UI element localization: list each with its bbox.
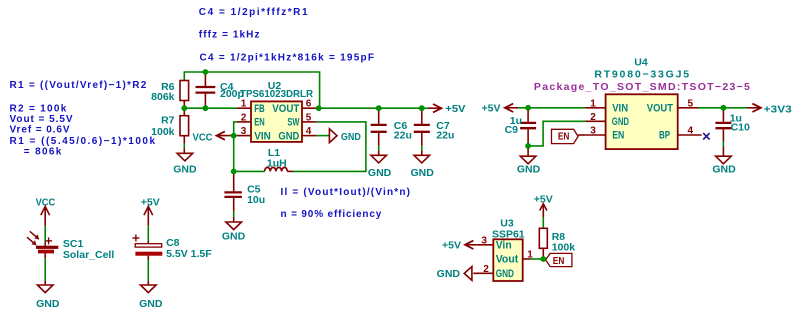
svg-text:806k: 806k [151,91,175,103]
svg-text:= 806k: = 806k [24,147,62,158]
svg-text:GND: GND [139,298,163,310]
solar cell SC1 [27,231,114,285]
pin 1 FB [237,99,251,110]
pin 2 GND [473,264,493,275]
note: inductor current formula text [281,187,411,220]
svg-text:GND: GND [437,268,461,280]
svg-text:+5V: +5V [445,103,465,115]
pin 1 VIN [585,98,605,109]
svg-text:TPS61023DRLR: TPS61023DRLR [240,88,313,100]
svg-text:GND: GND [496,268,514,280]
svg-text:GND: GND [36,298,60,310]
wire: SW to L1 [293,122,366,171]
svg-text:GND: GND [341,131,361,143]
svg-text:R7: R7 [161,114,175,126]
pin 3 EN [585,126,605,137]
ground at U2 pin 4 [317,129,362,143]
svg-text:R1 = ((5.45/0.6)−1)*100k: R1 = ((5.45/0.6)−1)*100k [10,136,156,147]
ground below C6 [368,155,392,179]
svg-text:VCC: VCC [193,132,213,144]
pin 5 VOUT [678,98,699,109]
ground below C5 [222,222,246,243]
svg-text:1: 1 [590,98,596,109]
svg-text:C4 = 1/2pi*fffz*R1: C4 = 1/2pi*fffz*R1 [199,7,308,18]
svg-text:FB: FB [254,103,265,115]
svg-text:GND: GND [278,130,299,142]
svg-text:+5V: +5V [141,196,160,208]
svg-text:5.5V 1.5F: 5.5V 1.5F [166,248,212,260]
junction at C6 top on VOUT rail [376,105,382,111]
svg-text:22u: 22u [436,129,454,141]
svg-text:2: 2 [483,264,489,275]
capacitor C6 [371,108,412,155]
op-amp U4 RT9080-33GJ5 [534,57,750,150]
svg-text:C9: C9 [505,124,519,136]
capacitor C8 (supercap) [132,235,212,286]
inductor L1 [234,147,293,171]
no-connect X at BP [703,133,709,139]
svg-text:Vout: Vout [496,254,519,266]
wire: U4 VOUT to +3V3 [698,107,747,109]
svg-text:3: 3 [481,235,487,246]
pin 2 EN [237,112,251,123]
svg-text:Vin: Vin [496,239,512,251]
resistor R8 [539,228,575,259]
svg-text:GND: GND [411,167,435,179]
svg-text:SW: SW [287,117,299,129]
svg-text:Il = (Vout*Iout)/(Vin*n): Il = (Vout*Iout)/(Vin*n) [281,187,411,198]
ground at U3 pin 2 [437,267,472,281]
global label EN (U4) [552,129,586,143]
svg-text:3: 3 [590,126,596,137]
op-amp U3 SSP61 [492,218,525,281]
power port +3V3 [747,104,792,116]
ground below R7 [173,153,197,175]
junction at C4 top on feedback rail [203,69,209,75]
capacitor C5 [224,171,265,222]
ground below C9 [517,146,541,176]
ground below C8 [139,285,163,310]
svg-text:5: 5 [306,112,312,123]
global label EN (U3) [543,253,572,266]
svg-text:VIN: VIN [254,130,271,142]
wire: FB node [184,107,236,109]
pin 6 VOUT [302,99,317,110]
svg-text:Vout = 5.5V: Vout = 5.5V [10,114,73,125]
svg-text:2: 2 [590,112,596,123]
resistor R6 [151,81,188,109]
power port +5V (into U4) [482,103,518,115]
svg-text:22u: 22u [394,129,412,141]
pin 4 BP [678,126,702,137]
capacitor C7 [414,108,455,155]
svg-text:n = 90% efficiency: n = 90% efficiency [281,209,382,220]
power port VCC [193,131,234,143]
op-amp U2 TPS61023DRLR [240,80,313,142]
ground below C10 [712,156,736,175]
svg-text:C4 = 1/2pi*1kHz*816k = 195pF: C4 = 1/2pi*1kHz*816k = 195pF [200,53,375,64]
junction at C9 bottom GND node [525,143,531,149]
junction at feedback tap on VOUT rail [316,105,322,111]
svg-text:R2 = 100k: R2 = 100k [10,103,67,114]
svg-text:EN: EN [553,255,565,267]
pin 3 VIN [237,126,251,137]
wire: U4 GND to C9 [528,121,585,146]
wire: VOUT rail to +5V [317,107,428,109]
junction at C4 bottom on FB node [203,105,209,111]
pin 1 Vout [523,250,544,261]
svg-text:6: 6 [306,99,312,110]
pin 5 SW [302,112,317,123]
svg-text:5: 5 [688,98,694,109]
svg-text:GND: GND [222,231,246,243]
capacitor C4 [196,72,244,108]
note: R1 formula text [10,80,156,158]
svg-text:EN: EN [558,131,570,143]
svg-text:VOUT: VOUT [272,103,299,115]
svg-text:4: 4 [688,126,694,137]
svg-text:fffz = 1kHz: fffz = 1kHz [199,30,260,41]
svg-text:2: 2 [241,112,247,123]
wire: +5V to U4 VIN [518,107,585,109]
svg-text:+5V: +5V [442,240,461,252]
svg-text:1uH: 1uH [267,157,287,169]
pin 2 GND [585,112,605,123]
svg-text:10u: 10u [247,194,265,206]
svg-text:1: 1 [241,99,247,110]
svg-text:GND: GND [517,164,541,176]
svg-text:EN: EN [254,117,265,129]
svg-text:R1 = ((Vout/Vref)−1)*R2: R1 = ((Vout/Vref)−1)*R2 [10,80,147,91]
svg-text:Vref = 0.6V: Vref = 0.6V [10,125,70,136]
svg-text:RT9080−33GJ5: RT9080−33GJ5 [594,68,689,80]
pin 4 GND [302,126,317,137]
svg-text:GND: GND [612,116,629,128]
junction at R6/R7/FB node [181,105,187,111]
svg-text:+5V: +5V [482,103,501,115]
svg-text:BP: BP [659,130,670,142]
svg-text:C8: C8 [166,237,180,249]
wire: EN to VIN tie [234,122,237,171]
junction at C7 top on VOUT rail [419,105,425,111]
capacitor C10 [715,108,750,156]
power port +5V (C8) [141,196,160,241]
svg-text:EN: EN [612,130,624,142]
svg-text:3: 3 [241,126,247,137]
junction at C10 top on +3V3 rail [721,105,727,111]
resistor R7 [151,108,188,153]
power port +5V (U3 Vin) [442,240,477,252]
pin 3 Vin [477,235,494,246]
svg-text:U4: U4 [634,57,648,69]
junction at R8/EN/Vout node [540,256,546,262]
svg-text:GND: GND [173,164,197,176]
junction at L1/C5 node [231,169,237,175]
svg-text:VIN: VIN [612,102,628,114]
junction at VIN/EN/VCC node [231,133,237,139]
svg-text:C10: C10 [731,121,750,133]
ground below SC1 [36,285,60,310]
ground below C7 [411,155,435,179]
junction at C9 top on +5V rail [525,105,531,111]
power port +5V (U2 output) [428,103,466,115]
svg-text:+3V3: +3V3 [764,104,792,116]
capacitor C9 [505,108,537,146]
svg-text:100k: 100k [552,241,576,253]
svg-text:4: 4 [306,126,312,137]
power port VCC (solar cell) [36,196,56,242]
power port +5V (above R8) [534,193,553,228]
svg-text:Package_TO_SOT_SMD:TSOT−23−5: Package_TO_SOT_SMD:TSOT−23−5 [534,81,750,93]
svg-text:GND: GND [712,164,736,176]
svg-text:VOUT: VOUT [647,102,673,114]
svg-text:GND: GND [368,167,392,179]
svg-text:Solar_Cell: Solar_Cell [63,249,114,261]
wire: VOUT feedback top rail [184,72,319,108]
note: C4 formula text [199,7,374,64]
svg-text:100k: 100k [151,126,175,138]
